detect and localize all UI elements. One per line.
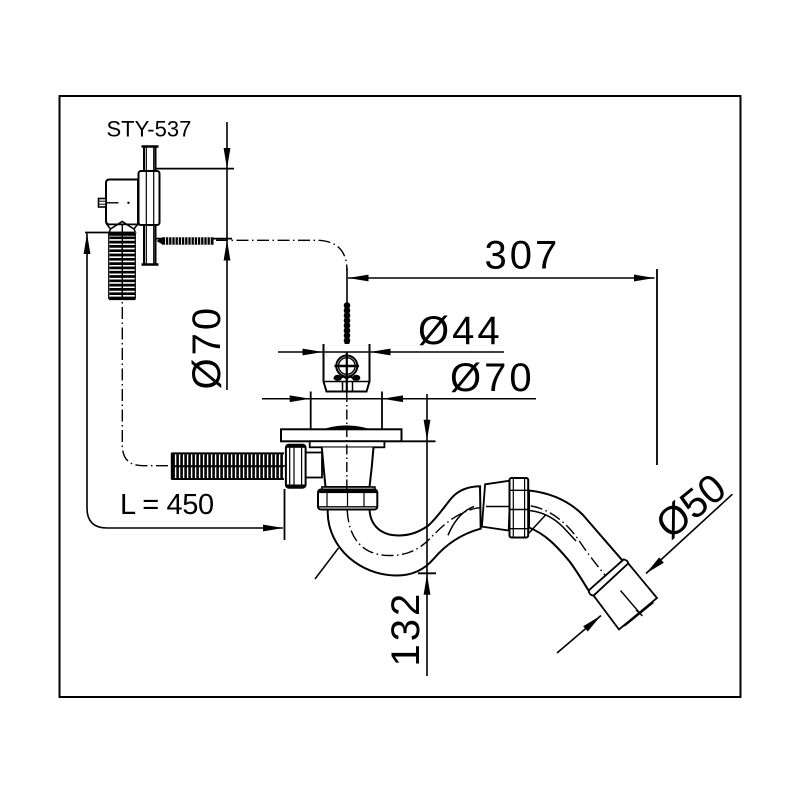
overflow fitting: center tick and dot [106, 202, 119, 204]
overflow fitting: body [106, 180, 138, 225]
bead chain [343, 302, 350, 353]
trap: shading tick on crest [448, 507, 474, 536]
dim Ø70 drain: left arrow [290, 395, 311, 402]
dim 307: right arrow [634, 275, 655, 282]
svg-text:L = 450: L = 450 [120, 489, 214, 521]
svg-text:132: 132 [384, 591, 428, 667]
dim Ø70 drain: right arrow [383, 395, 404, 402]
dim 307: left arrow [348, 275, 369, 282]
dim Ø44: left arrow [303, 349, 324, 356]
sleeve mid line [486, 506, 510, 508]
outlet fitting: collar [589, 559, 628, 595]
dim 307: dimension line [348, 277, 655, 279]
dim Ø70 overflow: lower arrow [224, 240, 231, 261]
overflow fitting: taper to hose [107, 225, 138, 233]
dim L=450: right arrow [263, 525, 284, 532]
dim Ø70 overflow: upper extent line [155, 168, 234, 170]
trap centerline (dash-dot) [347, 490, 638, 611]
svg-text:Ø70: Ø70 [450, 356, 535, 400]
drain: cup (plug seat) [324, 344, 370, 392]
overflow fitting: knob [99, 199, 107, 208]
trap: inner shading line on descent [530, 511, 577, 542]
union sleeve at crest [482, 481, 511, 531]
dim L=450: dimension path with corner [87, 234, 283, 529]
svg-text:307: 307 [485, 234, 561, 278]
trap: shading tick in U-bend [315, 548, 339, 579]
drain: big nut below cone [318, 490, 377, 510]
outlet fitting: internal bore line [621, 591, 642, 615]
dim L=450: reference line at hose top [85, 232, 110, 234]
dim L=450: right extension line [284, 489, 286, 540]
dim Ø70 overflow: upper arrow [224, 148, 231, 169]
dim 132: lower arrow [424, 574, 431, 595]
centerline from overflow screw to chain (dash-dot) [216, 240, 347, 271]
outlet fitting: end chamfer line [625, 603, 654, 627]
dim Ø70 drain: dimension line [262, 398, 536, 400]
dim Ø44: right arrow [370, 349, 391, 356]
trap tube: U-bend (white filled) [328, 486, 481, 575]
dim 307: right extension line [656, 269, 658, 465]
dim 132: lower extension line [418, 572, 436, 574]
svg-text:STY-537: STY-537 [107, 117, 192, 142]
dim Ø50: lower segment [557, 616, 601, 654]
union nut [510, 478, 529, 538]
dim L=450: up arrow [84, 234, 91, 255]
plug with ring [334, 356, 361, 392]
drain: dome gasket (black lens) [314, 426, 380, 433]
dim Ø44: dimension line [278, 351, 504, 353]
drain: tailpiece cone [322, 448, 374, 488]
dim Ø70 drain: extension lines [310, 392, 312, 431]
outlet fitting: small tick [636, 610, 643, 616]
dim Ø70 overflow: vertical dimension line [226, 122, 228, 390]
drain: top flange [281, 429, 402, 441]
svg-text:Ø70: Ø70 [185, 305, 229, 390]
drain: hose nut (left) [286, 445, 306, 488]
dim 132: upper extension line [402, 440, 436, 442]
centerline through drain (dash-dot vertical) [346, 392, 348, 490]
border frame [60, 96, 741, 697]
dim 132: dimension line [426, 394, 428, 676]
trap: shading tick on descent [529, 515, 547, 534]
outlet fitting: body [594, 563, 657, 629]
drain: lower plate [310, 441, 385, 447]
centerline of hose path (dash-dot): down then right to drain [122, 225, 344, 466]
trap tube: descent from union to outlet collar (white filled) [529, 491, 623, 593]
dim 132: upper arrow [424, 420, 431, 441]
dim Ø70 overflow: lower extent line [156, 238, 232, 240]
overflow fitting: escutcheon bell [139, 171, 160, 225]
dim Ø50: upper segment [646, 494, 732, 573]
drain: side inlet cylinder [306, 453, 323, 478]
drain: cone bottom lip [322, 487, 375, 490]
dim Ø50: upper arrow [646, 557, 664, 573]
chain cord [346, 268, 348, 356]
overflow fitting: mounting plate (flange seen edge-on) [142, 147, 159, 265]
dim Ø50: lower arrow [583, 616, 601, 632]
overflow screw [84, 225, 733, 676]
plug center stem line [346, 352, 348, 392]
horizontal corrugated hose [172, 453, 285, 479]
overflow fitting: plate inner lines [145, 147, 147, 264]
vertical corrugated hose below overflow [109, 232, 137, 300]
svg-text:Ø44: Ø44 [418, 309, 503, 353]
